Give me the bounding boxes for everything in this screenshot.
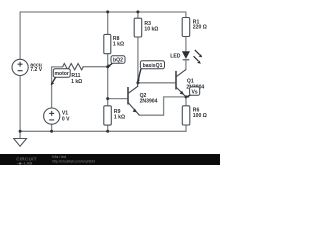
wire R8 top lead	[107, 12, 109, 34]
svg-text:0 V: 0 V	[62, 117, 70, 123]
svg-text:100 Ω: 100 Ω	[193, 113, 207, 119]
flag label motor	[51, 69, 71, 86]
node bottom ground	[19, 130, 22, 133]
wire LED to Q1 collector	[185, 60, 187, 69]
node top R8	[106, 10, 109, 13]
svg-text:1 kΩ: 1 kΩ	[113, 42, 124, 48]
component value texts	[30, 19, 207, 122]
wire R3 top lead	[137, 12, 139, 18]
node bQ2 junction	[106, 65, 109, 68]
svg-text:Vs: Vs	[191, 89, 197, 95]
svg-text:LED: LED	[170, 54, 181, 60]
flag label basisQ1	[137, 61, 165, 83]
watermark bar	[0, 154, 220, 165]
LED light arrow 1	[195, 50, 200, 55]
wire R6 bottom lead	[185, 125, 187, 131]
node bottom R9	[106, 130, 109, 133]
node basisQ1 junction	[136, 81, 139, 84]
wire ground stub	[19, 131, 21, 138]
resistor R11 1 kOhm zigzag	[63, 64, 84, 70]
wire V1 to motor branch vertical	[52, 67, 63, 108]
svg-text:motor: motor	[54, 71, 68, 77]
resistor R3 10 kOhm	[134, 18, 142, 37]
node Q2 base junction	[106, 97, 109, 100]
wire R8-R9 column	[107, 54, 109, 106]
svg-text:K5z / led: K5z / led	[52, 155, 66, 159]
node bottom V1	[50, 130, 53, 133]
node Vs emitter junction	[185, 95, 188, 98]
wire R1 to LED	[185, 37, 187, 52]
wire R1 top lead	[185, 12, 187, 18]
svg-text:7.2 V: 7.2 V	[30, 67, 42, 73]
wire R11 right to node bQ2	[83, 66, 107, 68]
svg-text:http://circuitlab.com/c/nyh62d: http://circuitlab.com/c/nyh62d	[52, 159, 95, 163]
svg-text:R11: R11	[71, 73, 80, 79]
svg-text:1 kΩ: 1 kΩ	[114, 114, 125, 120]
resistor R6 100 Ohm	[182, 106, 190, 125]
flag label Vs	[186, 87, 200, 98]
svg-text:~◆~LAB: ~◆~LAB	[16, 160, 32, 165]
transistor Q2 2N3904	[128, 83, 139, 115]
wire Q1 base	[138, 82, 176, 84]
svg-text:220 Ω: 220 Ω	[193, 25, 207, 31]
resistor R8 1 kOhm	[104, 34, 111, 53]
wire R9 bottom lead	[107, 125, 109, 131]
resistor R9 1 kOhm	[104, 106, 112, 125]
wire Q1 emitter lead	[185, 97, 187, 106]
wire bottom rail	[20, 130, 186, 132]
transistor Q1 2N3904	[176, 70, 186, 97]
wire left rail lower	[19, 75, 21, 131]
resistor R1 220 Ohm	[182, 18, 190, 37]
flag label bQ2	[107, 56, 125, 68]
svg-text:basisQ1: basisQ1	[143, 63, 163, 69]
wire left rail upper	[19, 12, 21, 59]
voltage source accu 7.2V	[12, 59, 28, 75]
voltage source V1 0V	[44, 108, 60, 124]
LED D1	[182, 50, 202, 64]
svg-text:bQ2: bQ2	[113, 58, 123, 64]
svg-text:V1: V1	[62, 110, 68, 116]
LED light arrow 2	[194, 56, 199, 61]
wire top rail	[20, 11, 186, 13]
wire emitter link Q2 to Q1	[139, 97, 186, 115]
junction node dots	[19, 10, 188, 132]
wire R3 bottom lead / node basisQ1	[137, 37, 139, 83]
svg-text:1 kΩ: 1 kΩ	[71, 79, 82, 85]
wire Q2 base	[108, 98, 128, 100]
wire V1 bottom lead	[51, 124, 53, 131]
node top R3	[136, 10, 139, 13]
svg-text:2N3904: 2N3904	[140, 98, 158, 104]
ground	[14, 139, 27, 147]
svg-text:10 kΩ: 10 kΩ	[144, 26, 158, 32]
